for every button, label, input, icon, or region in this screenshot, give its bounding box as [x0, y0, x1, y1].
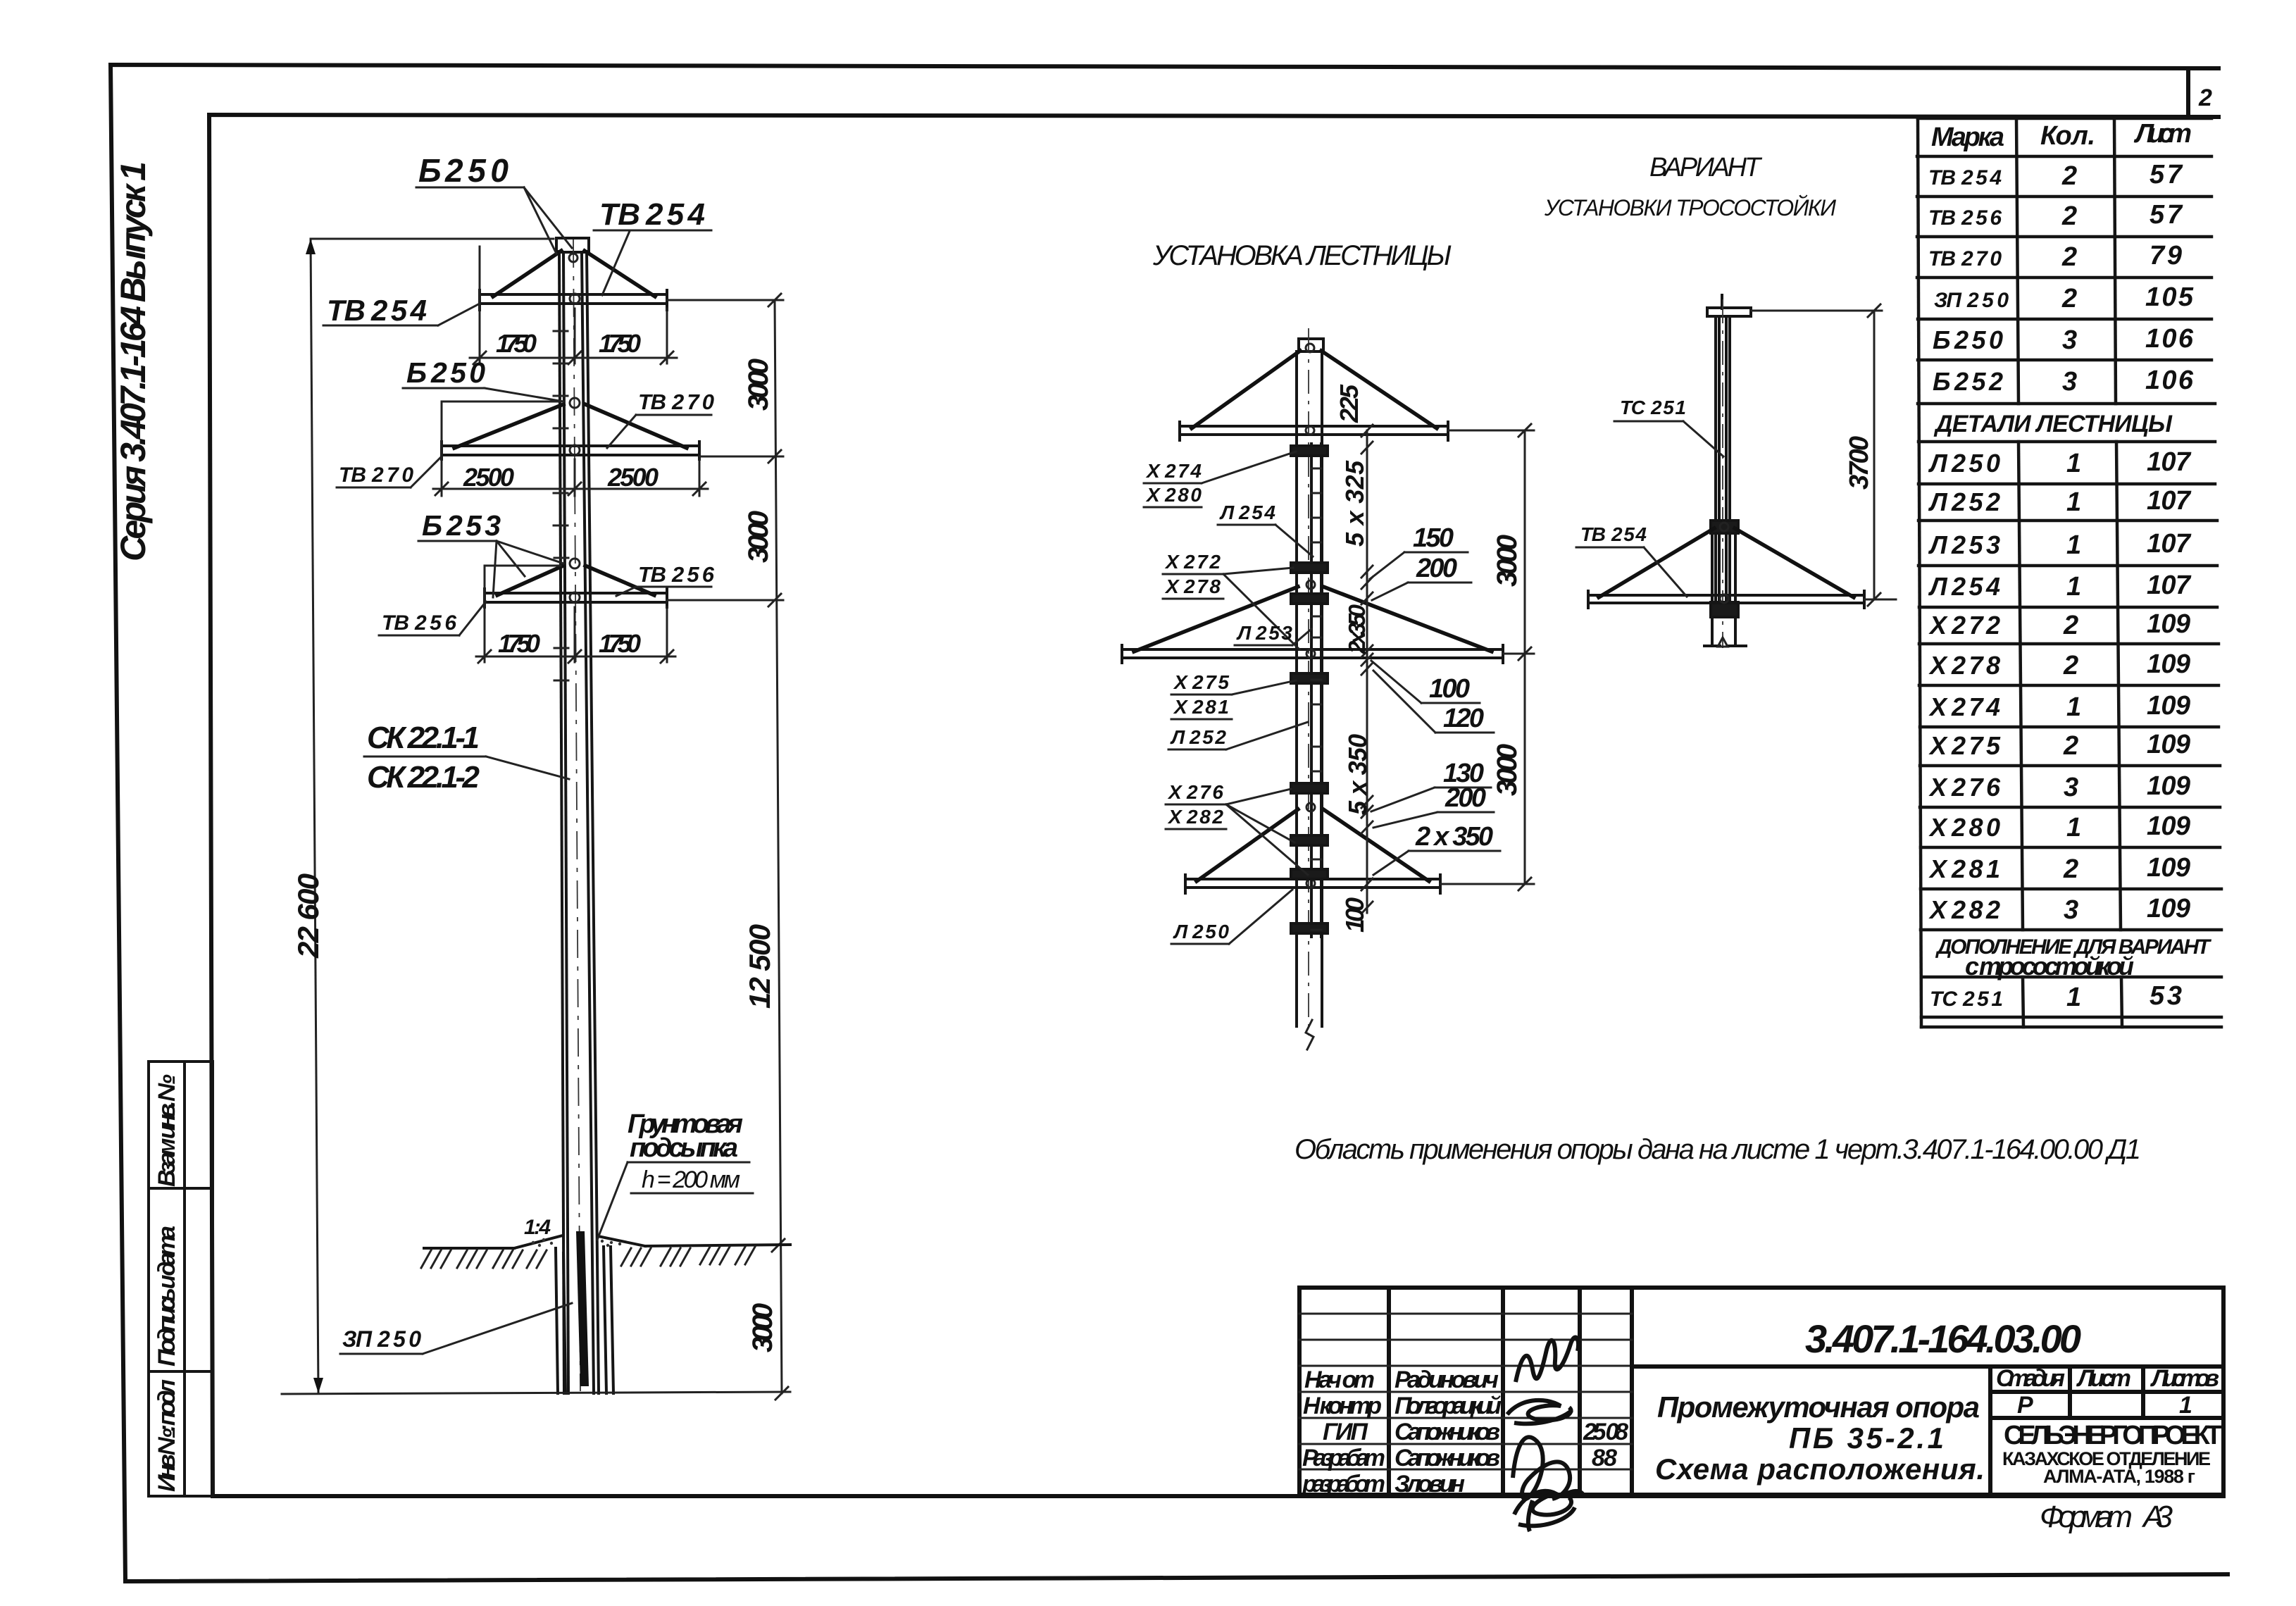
svg-text:252: 252 — [1951, 487, 2000, 516]
svg-text:3: 3 — [2064, 895, 2078, 925]
svg-text:ТВ: ТВ — [638, 390, 666, 414]
svg-text:ТВ: ТВ — [339, 463, 366, 487]
svg-text:СК 22.1-1: СК 22.1-1 — [367, 721, 480, 755]
svg-text:Х: Х — [1167, 781, 1183, 803]
svg-text:22 600: 22 600 — [292, 873, 325, 959]
svg-text:h = 200 мм: h = 200 мм — [642, 1166, 740, 1193]
svg-text:2: 2 — [2061, 161, 2077, 191]
svg-text:Л: Л — [1219, 502, 1235, 523]
svg-text:282: 282 — [1186, 806, 1223, 828]
svg-text:120: 120 — [1443, 704, 1484, 733]
svg-text:3: 3 — [2062, 325, 2077, 355]
svg-text:Инв №: подл: Инв №: подл — [154, 1379, 180, 1492]
svg-text:Н контр: Н контр — [1303, 1393, 1382, 1419]
svg-text:200: 200 — [1445, 783, 1486, 813]
svg-text:ТВ: ТВ — [1580, 523, 1606, 545]
svg-text:282: 282 — [1951, 895, 2000, 924]
svg-text:253: 253 — [446, 509, 501, 542]
svg-text:1: 1 — [2179, 1392, 2192, 1419]
svg-text:109: 109 — [2147, 771, 2190, 801]
svg-text:ЗП: ЗП — [1934, 289, 1962, 312]
svg-text:Подпись и дата: Подпись и дата — [154, 1226, 180, 1367]
svg-text:Л: Л — [1928, 530, 1948, 559]
svg-text:ТВ: ТВ — [1928, 206, 1956, 230]
svg-text:281: 281 — [1192, 696, 1229, 718]
svg-text:Х: Х — [1164, 575, 1180, 597]
svg-text:109: 109 — [2147, 730, 2190, 759]
svg-text:1:4: 1:4 — [524, 1216, 551, 1239]
svg-text:Схема расположения.: Схема расположения. — [1655, 1452, 1985, 1486]
svg-text:Область применения опоры да: Область применения опоры дана на листе 1… — [1294, 1134, 2141, 1165]
svg-text:250: 250 — [1192, 921, 1229, 942]
svg-text:5 х 350: 5 х 350 — [1343, 734, 1372, 815]
svg-text:Нач от: Нач от — [1304, 1367, 1375, 1393]
svg-text:Б: Б — [422, 509, 442, 542]
svg-text:ТВ: ТВ — [1928, 247, 1956, 270]
svg-text:Х: Х — [1928, 895, 1948, 924]
svg-text:57: 57 — [2150, 200, 2183, 230]
svg-text:2500: 2500 — [463, 463, 514, 492]
svg-text:25 08: 25 08 — [1583, 1419, 1628, 1445]
svg-text:250: 250 — [444, 152, 509, 189]
svg-text:ДЕТАЛИ ЛЕСТНИЦЫ: ДЕТАЛИ ЛЕСТНИЦЫ — [1933, 411, 2173, 437]
svg-text:3000: 3000 — [1492, 535, 1523, 587]
svg-text:278: 278 — [1951, 651, 2000, 680]
svg-text:107: 107 — [2147, 571, 2192, 600]
svg-text:2х350: 2х350 — [1344, 604, 1370, 654]
svg-text:105: 105 — [2145, 282, 2194, 312]
svg-text:Х: Х — [1164, 551, 1180, 573]
svg-text:Х: Х — [1928, 692, 1948, 721]
svg-text:2500: 2500 — [607, 463, 659, 492]
svg-text:270: 270 — [1961, 247, 2002, 270]
svg-text:254: 254 — [1961, 166, 2002, 189]
svg-text:Зловин: Зловин — [1395, 1471, 1465, 1498]
svg-text:109: 109 — [2147, 691, 2190, 721]
svg-text:3000: 3000 — [743, 359, 774, 411]
svg-text:ТВ: ТВ — [327, 294, 366, 327]
svg-text:Кол.: Кол. — [2040, 121, 2095, 151]
svg-text:88: 88 — [1592, 1445, 1617, 1471]
svg-text:107: 107 — [2147, 447, 2192, 477]
svg-text:ТВ: ТВ — [382, 611, 409, 635]
svg-text:250: 250 — [1966, 289, 2009, 312]
svg-text:109: 109 — [2147, 853, 2190, 883]
svg-text:ТС: ТС — [1930, 988, 1958, 1011]
svg-text:1: 1 — [2066, 813, 2081, 842]
svg-text:1: 1 — [2066, 692, 2081, 722]
svg-text:3000: 3000 — [743, 511, 774, 563]
svg-text:2: 2 — [2063, 731, 2078, 761]
svg-text:Х: Х — [1928, 854, 1948, 883]
svg-text:Полгорацкий: Полгорацкий — [1395, 1393, 1502, 1419]
svg-text:2: 2 — [2198, 85, 2212, 111]
svg-text:СЕЛЬЭНЕРГОПРОЕКТ: СЕЛЬЭНЕРГОПРОЕКТ — [2004, 1421, 2222, 1450]
svg-text:Б: Б — [1933, 325, 1951, 354]
svg-text:57: 57 — [2150, 160, 2183, 189]
svg-text:1: 1 — [2066, 983, 2081, 1012]
svg-text:256: 256 — [414, 611, 456, 635]
svg-text:100: 100 — [1340, 897, 1369, 933]
svg-text:Л: Л — [1236, 622, 1252, 644]
svg-text:2: 2 — [2061, 242, 2077, 272]
svg-text:УСТАНОВКИ ТРОСОСТОЙКИ: УСТАНОВКИ ТРОСОСТОЙКИ — [1544, 195, 1836, 220]
svg-text:1: 1 — [2066, 572, 2081, 602]
svg-text:225: 225 — [1335, 384, 1364, 423]
svg-text:280: 280 — [1951, 813, 2000, 842]
svg-text:252: 252 — [1954, 367, 2003, 396]
svg-text:Л: Л — [1170, 726, 1185, 748]
svg-text:Б: Б — [406, 356, 427, 389]
svg-text:270: 270 — [671, 390, 714, 414]
svg-text:3: 3 — [2064, 773, 2078, 802]
svg-text:Х: Х — [1145, 484, 1161, 506]
svg-text:251: 251 — [1650, 397, 1686, 418]
svg-text:109: 109 — [2147, 609, 2190, 639]
svg-text:Р: Р — [2017, 1392, 2033, 1419]
svg-text:254: 254 — [1951, 572, 2000, 601]
svg-text:253: 253 — [1951, 530, 2000, 559]
svg-text:ПБ 35-2.1: ПБ 35-2.1 — [1789, 1421, 1944, 1455]
svg-text:Л: Л — [1928, 487, 1948, 516]
svg-text:250: 250 — [377, 1326, 421, 1352]
svg-text:АЛМА-АТА, 1988 г: АЛМА-АТА, 1988 г — [2043, 1466, 2195, 1487]
svg-text:3000: 3000 — [1492, 744, 1523, 796]
svg-text:272: 272 — [1951, 611, 2000, 640]
svg-text:12 500: 12 500 — [743, 924, 776, 1009]
svg-text:А3: А3 — [2141, 1500, 2173, 1534]
svg-text:Х: Х — [1928, 611, 1948, 640]
svg-text:250: 250 — [1951, 449, 2000, 478]
svg-text:274: 274 — [1951, 692, 2000, 721]
svg-text:Разрабат: Разрабат — [1302, 1445, 1385, 1471]
svg-text:276: 276 — [1951, 773, 2001, 802]
svg-text:2: 2 — [2061, 201, 2077, 231]
svg-text:ЗП: ЗП — [342, 1326, 373, 1352]
svg-text:Х: Х — [1173, 696, 1189, 718]
svg-text:1750: 1750 — [599, 629, 641, 658]
svg-text:Х: Х — [1167, 806, 1183, 828]
svg-text:Л: Л — [1928, 449, 1948, 478]
svg-text:150: 150 — [1413, 523, 1454, 553]
svg-text:100: 100 — [1429, 674, 1470, 704]
svg-text:Л: Л — [1173, 921, 1188, 942]
svg-text:254: 254 — [1611, 523, 1647, 545]
svg-text:251: 251 — [1962, 988, 2003, 1011]
svg-text:3700: 3700 — [1845, 436, 1874, 490]
svg-text:ТВ: ТВ — [638, 562, 666, 587]
svg-text:2: 2 — [2063, 651, 2078, 680]
svg-text:274: 274 — [1164, 460, 1202, 482]
svg-text:Промежуточная опора: Промежуточная опора — [1657, 1390, 1980, 1424]
svg-text:ТВ: ТВ — [599, 197, 640, 232]
svg-text:109: 109 — [2147, 649, 2190, 679]
svg-text:Лист: Лист — [2076, 1365, 2131, 1392]
svg-text:Взам инв. №: Взам инв. № — [154, 1074, 180, 1187]
svg-text:УСТАНОВКА ЛЕСТНИЦЫ: УСТАНОВКА ЛЕСТНИЦЫ — [1152, 240, 1452, 271]
svg-text:с тросостойкой: с тросостойкой — [1965, 952, 2134, 981]
svg-text:1: 1 — [2066, 530, 2081, 560]
svg-text:107: 107 — [2147, 529, 2192, 559]
svg-text:Сапожников: Сапожников — [1395, 1445, 1500, 1471]
svg-text:Х: Х — [1145, 460, 1161, 482]
svg-text:Х: Х — [1928, 651, 1948, 680]
svg-text:254: 254 — [645, 197, 705, 232]
svg-text:Х: Х — [1928, 731, 1948, 760]
svg-text:подсыпка: подсыпка — [630, 1133, 738, 1163]
svg-text:1: 1 — [2066, 449, 2081, 478]
svg-text:270: 270 — [371, 463, 413, 487]
svg-text:254: 254 — [1238, 502, 1275, 523]
svg-text:280: 280 — [1164, 484, 1202, 506]
svg-text:2 х 350: 2 х 350 — [1415, 822, 1493, 852]
svg-text:Листов: Листов — [2150, 1365, 2219, 1392]
svg-text:275: 275 — [1192, 671, 1229, 693]
svg-text:109: 109 — [2147, 894, 2190, 923]
svg-text:1: 1 — [2066, 487, 2081, 517]
svg-text:ВАРИАНТ: ВАРИАНТ — [1649, 153, 1763, 182]
svg-text:ТС: ТС — [1620, 397, 1646, 418]
svg-text:107: 107 — [2147, 486, 2192, 516]
svg-text:200: 200 — [1416, 554, 1457, 583]
svg-text:Сапожников: Сапожников — [1395, 1419, 1500, 1445]
svg-text:5 х 325: 5 х 325 — [1340, 460, 1369, 547]
svg-text:3000: 3000 — [747, 1303, 778, 1352]
svg-text:Лист: Лист — [2133, 119, 2192, 149]
svg-text:Б: Б — [1933, 367, 1951, 396]
svg-text:250: 250 — [1954, 325, 2003, 354]
svg-text:281: 281 — [1951, 854, 2000, 883]
svg-text:256: 256 — [1961, 206, 2002, 230]
svg-text:278: 278 — [1183, 575, 1221, 597]
svg-text:СК 22.1-2: СК 22.1-2 — [367, 760, 480, 795]
svg-text:2: 2 — [2063, 854, 2078, 884]
svg-text:254: 254 — [370, 294, 427, 327]
svg-text:Б: Б — [418, 152, 442, 189]
svg-text:109: 109 — [2147, 811, 2190, 841]
svg-text:разработ: разработ — [1302, 1471, 1385, 1498]
svg-text:106: 106 — [2145, 324, 2194, 354]
svg-text:ГИП: ГИП — [1323, 1419, 1369, 1445]
svg-text:1750: 1750 — [599, 329, 641, 358]
svg-text:252: 252 — [1189, 726, 1226, 748]
svg-text:Стадия: Стадия — [1996, 1365, 2065, 1392]
svg-text:253: 253 — [1255, 622, 1292, 644]
svg-text:2: 2 — [2061, 284, 2077, 313]
svg-text:Л: Л — [1928, 572, 1948, 601]
svg-text:272: 272 — [1183, 551, 1221, 573]
svg-text:Серия 3.407.1-164 Выпуск 1: Серия 3.407.1-164 Выпуск 1 — [113, 161, 153, 561]
svg-text:Радинович: Радинович — [1395, 1367, 1499, 1393]
svg-text:Формат: Формат — [2040, 1500, 2133, 1534]
svg-text:275: 275 — [1951, 731, 2001, 760]
svg-text:106: 106 — [2145, 366, 2194, 395]
svg-text:Марка: Марка — [1931, 123, 2004, 152]
svg-text:2: 2 — [2063, 611, 2078, 640]
svg-text:3.407.1-164.03.00: 3.407.1-164.03.00 — [1805, 1316, 2081, 1361]
svg-text:Х: Х — [1928, 813, 1948, 842]
svg-text:Х: Х — [1173, 671, 1189, 693]
svg-text:1750: 1750 — [496, 329, 537, 358]
svg-text:1750: 1750 — [498, 629, 540, 658]
svg-text:ТВ: ТВ — [1928, 166, 1956, 189]
svg-text:3: 3 — [2062, 367, 2077, 397]
svg-text:276: 276 — [1186, 781, 1223, 803]
svg-text:256: 256 — [671, 562, 715, 587]
svg-text:250: 250 — [430, 356, 485, 389]
svg-text:Х: Х — [1928, 773, 1948, 802]
